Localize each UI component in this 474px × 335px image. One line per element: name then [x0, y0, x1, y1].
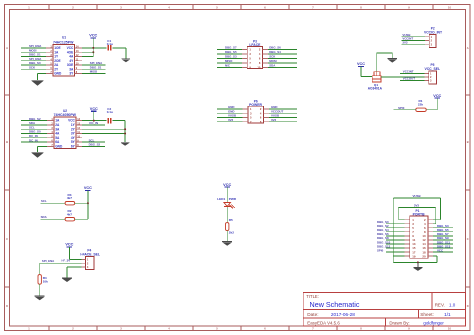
node DBG_S2 (U2) — [29, 117, 41, 121]
power flag VCC (P4) — [65, 243, 73, 247]
wire P3 pin6 — [268, 58, 297, 60]
svg-text:I-FACE_SEL: I-FACE_SEL — [80, 253, 100, 257]
svg-text:VCC: VCC — [433, 94, 441, 98]
node DBG_S4 (P1 left) — [377, 228, 389, 232]
svg-text:3V3: 3V3 — [271, 118, 277, 122]
svg-text:SCK: SCK — [269, 55, 276, 59]
connector P5 VCC_SEL — [424, 63, 440, 84]
wire U2 pin 12 — [82, 128, 125, 130]
svg-text:MOSI: MOSI — [269, 59, 277, 63]
node VCCINT (P2) — [402, 37, 413, 41]
svg-text:SPI0: SPI0 — [398, 106, 405, 110]
ground R4 — [35, 296, 45, 300]
resistor R4 10k — [38, 275, 48, 285]
node DBG_S5 (P3 left) — [225, 50, 237, 54]
svg-text:A: A — [6, 46, 8, 50]
ground U2 rail — [121, 142, 130, 146]
svg-text:AO3401A: AO3401A — [368, 87, 383, 91]
ground P1 — [413, 267, 422, 271]
svg-text:VCC: VCC — [65, 243, 73, 247]
wire U2 pin2 — [21, 124, 47, 126]
connector P1 PORTB — [405, 209, 433, 258]
node VCCOUT (P5) — [403, 77, 415, 81]
svg-text:VCCINT: VCCINT — [403, 70, 414, 74]
node DC_IN (U2) — [29, 134, 38, 138]
svg-text:VCCOUT: VCCOUT — [403, 77, 415, 81]
svg-text:D: D — [467, 304, 469, 308]
node DBG_S2 (U2 right) — [89, 143, 101, 147]
svg-text:New Schematic: New Schematic — [310, 300, 360, 309]
wire U1 pin6 — [21, 68, 46, 70]
title block — [303, 293, 465, 327]
node DBG_S1 (U1 right) — [90, 66, 102, 70]
node SPI_ENA (P4) — [42, 259, 55, 263]
svg-text:VCC: VCC — [437, 248, 444, 252]
svg-text:22k: 22k — [418, 103, 423, 107]
wire SPI0 to R1 — [394, 109, 416, 111]
wire P1 pin3 — [386, 223, 405, 225]
wire VCC pullup rail — [87, 190, 89, 219]
wire P3 pin4 — [268, 53, 297, 55]
svg-text:19: 19 — [412, 254, 416, 258]
svg-text:74HC125PW: 74HC125PW — [53, 40, 74, 44]
wire P6 pin2 — [269, 108, 297, 110]
wire U1 pin5 — [21, 64, 46, 66]
wire U2 GND — [38, 146, 48, 152]
wire U1 pin9 — [82, 68, 106, 70]
wire U2 pin3 — [21, 128, 47, 130]
svg-text:DBG_S7: DBG_S7 — [225, 46, 237, 50]
wire P6 pin8 — [269, 121, 297, 123]
wire P1 pin13 — [386, 243, 405, 245]
junction dots U2 ground rail — [124, 128, 126, 134]
wire P5 pin1 — [400, 72, 424, 74]
ground LED chain — [222, 242, 232, 246]
capacitor C1 0.1u — [107, 39, 113, 51]
svg-text:DBG_S3: DBG_S3 — [225, 55, 237, 59]
wire U2 pin 13 — [82, 124, 105, 126]
power flag VCC (LED1) — [223, 183, 231, 187]
svg-text:1.0: 1.0 — [449, 302, 456, 307]
svg-text:3V3: 3V3 — [402, 40, 408, 44]
node DBG_S0 (U2) — [29, 130, 41, 134]
node SDA (P3 right) — [269, 64, 276, 68]
wire VCC to LED1 — [226, 187, 228, 202]
svg-text:10: 10 — [257, 66, 260, 70]
junction dot P1 ground — [417, 261, 419, 263]
svg-text:SCK: SCK — [29, 66, 36, 70]
svg-text:POWER: POWER — [249, 103, 262, 107]
svg-text:DBG_S5: DBG_S5 — [225, 50, 237, 54]
wire P3 pin2 — [268, 49, 297, 51]
ground P4 — [62, 278, 72, 282]
svg-text:VCCIO_INT: VCCIO_INT — [424, 31, 443, 35]
svg-text:20: 20 — [422, 254, 426, 258]
wire U2 pin 9 — [82, 141, 105, 143]
svg-text:2k2: 2k2 — [229, 230, 234, 234]
capacitor C2 0.1u — [107, 107, 113, 123]
wire P2 pin3 — [401, 43, 425, 45]
wire P1 pin9 — [386, 235, 405, 237]
svg-text:Drawn By:: Drawn By: — [389, 321, 409, 326]
node SDA (R2) — [41, 215, 48, 219]
wire VUSB loop — [393, 198, 440, 263]
node VUSB (P1) — [413, 194, 421, 198]
wire P1 pin11 — [386, 239, 405, 241]
node DBG_S3 (P3 left) — [225, 55, 237, 59]
node VCCINT (P5) — [403, 70, 414, 74]
resistor R1 22k — [416, 99, 426, 111]
node VUSB (P2) — [402, 33, 410, 37]
IC U2 74HC4050PW — [47, 109, 82, 149]
wire P1 pin5 — [386, 227, 405, 229]
node VUSB (P6 left) — [228, 114, 236, 118]
node SCL (R3) — [41, 199, 47, 203]
wire P5 pin3 — [400, 79, 424, 81]
svg-text:DC_IN: DC_IN — [89, 121, 98, 125]
node 3V3 (P6 right) — [271, 118, 277, 122]
node GND (P6 right) — [271, 105, 277, 109]
node DBG_S4 (P3 right) — [269, 50, 281, 54]
wire Q1 gate to ground — [377, 53, 393, 72]
IC U1 74HC125PW — [46, 36, 82, 76]
node DBG_S0 (P1 left) — [377, 220, 389, 224]
wire U1 pin 13 — [82, 51, 94, 53]
wire U1 pin10 — [82, 64, 106, 66]
svg-text:MISO: MISO — [225, 59, 233, 63]
node GND (P6 left) — [228, 109, 234, 113]
wire P1 pin17 — [386, 251, 405, 253]
wire P2 pin1 — [401, 36, 425, 38]
wire U1 pin2 — [21, 51, 46, 53]
wire P1 pin16 — [433, 247, 453, 249]
wire U1 pin4 — [21, 60, 46, 62]
svg-text:SCL: SCL — [41, 199, 47, 203]
wire P1 ground loop — [393, 256, 437, 262]
node SPI_ENA (U1 right) — [90, 61, 103, 65]
node MISO (P3 left) — [225, 59, 233, 63]
ground U1 — [32, 80, 44, 86]
wire C2 to ground rail — [113, 121, 126, 143]
node SPI0 (P1 left) — [377, 248, 384, 252]
node GND (P6 left) — [228, 105, 234, 109]
svg-text:4k7: 4k7 — [67, 196, 72, 200]
node VUSB (P6 right) — [271, 114, 279, 118]
svg-text:VCC: VCC — [89, 34, 97, 38]
wire P2 pin2 — [401, 40, 425, 42]
svg-text:A: A — [467, 46, 469, 50]
node DBG_S10 (P1 left) — [377, 240, 391, 244]
power flag VCC (pullups) — [84, 186, 92, 190]
node DBG_S6 (P1 left) — [377, 232, 389, 236]
node DBG_S0 — [29, 61, 41, 65]
wire P1 pin12 — [433, 239, 453, 241]
wire to P1 ground flag — [417, 262, 419, 267]
svg-text:Sheet:: Sheet: — [420, 312, 434, 317]
wire U1 pin 12 — [82, 55, 94, 57]
wire P6 pin6 — [269, 117, 297, 119]
wire P1 pin14 — [433, 243, 453, 245]
wire P3 pin10 — [268, 67, 297, 69]
node I-F_3V3 — [62, 259, 71, 263]
svg-text:R5: R5 — [229, 218, 233, 222]
svg-text:74HC4050PW: 74HC4050PW — [54, 113, 77, 117]
wire 3V3 loop — [398, 208, 435, 224]
node DC_IN (U2) — [29, 138, 38, 142]
node SCK — [29, 66, 36, 70]
svg-text:3V3: 3V3 — [414, 203, 420, 207]
wire U2 pin5 — [21, 137, 47, 139]
wire SCL to R3 — [40, 202, 65, 204]
svg-text:4k7: 4k7 — [67, 213, 72, 217]
wire P3 pin1 — [217, 49, 242, 51]
power flag VCC (U2) — [90, 107, 98, 111]
node SDA (U2) — [29, 121, 36, 125]
ground Q1 gate — [388, 59, 397, 63]
wire R2 to rail — [75, 218, 88, 220]
wire VCC to U2 pin 14 — [93, 111, 95, 120]
svg-text:SDA: SDA — [269, 64, 276, 68]
wire U1 pin8 — [82, 73, 106, 75]
node DBG_S7 (P1 right) — [437, 232, 449, 236]
wire VCC to U1 pin 14 — [92, 38, 94, 57]
node DBG_S2 (P1 left) — [377, 224, 389, 228]
svg-text:SPI0: SPI0 — [377, 248, 384, 252]
wire U1 pin3 — [21, 55, 46, 57]
node DBG_S12 (P1 left) — [377, 244, 391, 248]
node SCL (U2) — [29, 125, 35, 129]
svg-text:SDA: SDA — [41, 215, 48, 219]
svg-text:DC_IN: DC_IN — [29, 138, 38, 142]
wire C1 to ground — [113, 48, 126, 59]
svg-text:10k: 10k — [43, 279, 48, 283]
resistor R2 4k7 — [65, 209, 75, 221]
svg-text:MISO: MISO — [90, 70, 98, 74]
wire R5 to ground — [226, 231, 228, 242]
node MOSI (P3 right) — [269, 59, 277, 63]
node DBG_S3 (P1 right) — [437, 224, 449, 228]
node 3V3 (P6 left) — [228, 118, 234, 122]
svg-text:GND: GND — [54, 72, 62, 76]
node DBG_S13 (P1 right) — [437, 244, 451, 248]
svg-text:LED1: LED1 — [217, 197, 225, 201]
power flag VCC (Q1) — [357, 62, 365, 66]
node MISO (U1 right) — [90, 70, 98, 74]
wire P3 pin5 — [217, 58, 242, 60]
node DBG_S6 (P3 right) — [269, 46, 281, 50]
connector P3 I-FACE — [242, 39, 268, 69]
svg-text:0.1u: 0.1u — [107, 110, 113, 114]
wire P6 pin7 — [217, 121, 243, 123]
wire P3 pin3 — [217, 53, 242, 55]
svg-text:SPI_ENA: SPI_ENA — [42, 259, 55, 263]
node SCL (U2 right) — [89, 138, 95, 142]
node DBG_S11 (P1 right) — [437, 240, 450, 244]
svg-text:I-F_3V: I-F_3V — [62, 259, 71, 263]
svg-text:C: C — [6, 237, 8, 241]
resistor R3 4k7 — [65, 193, 75, 205]
power flag VCC (U1) — [89, 34, 97, 38]
wire P3 pin7 — [217, 62, 242, 64]
wire VCC to P4 pin1 — [69, 247, 85, 260]
junction dot pullup rail — [87, 202, 89, 204]
svg-text:I-FACE: I-FACE — [249, 43, 261, 47]
svg-text:TITLE:: TITLE: — [306, 294, 319, 299]
node DBG_S7 (P3 left) — [225, 46, 237, 50]
wire U1 VCC row — [82, 47, 107, 49]
svg-text:VCC: VCC — [90, 107, 98, 111]
wire VCC to Q1 source — [361, 66, 372, 76]
connector P6 POWER — [243, 100, 269, 124]
LED LED1 PWR — [217, 197, 236, 208]
wire U2 pin 8 — [82, 145, 105, 147]
wire P4 pin3 to ground — [67, 267, 81, 278]
wire U2 pin1 — [21, 120, 47, 122]
node 3V3 (P2) — [402, 40, 408, 44]
junction dot U2 VCC — [93, 120, 95, 122]
svg-text:Date:: Date: — [307, 312, 318, 317]
wire R3 to rail — [75, 202, 88, 204]
svg-text:REV.: REV. — [435, 302, 445, 307]
svg-text:DBG_S2: DBG_S2 — [89, 143, 101, 147]
connector P2 VCCIO_INT — [424, 27, 443, 48]
wire P6 pin3 — [217, 112, 243, 114]
svg-text:U1: U1 — [62, 36, 66, 40]
wire P6 pin4 — [269, 112, 297, 114]
wire U2 pin4 — [21, 133, 47, 135]
wire SDA to R2 — [40, 218, 65, 220]
wire U2 pin6 — [21, 141, 47, 143]
wire Q1 drain to P5 pin2 — [381, 76, 429, 78]
svg-text:GND: GND — [55, 145, 63, 149]
wire P1 pin15 — [386, 247, 405, 249]
node DBG_S5 (P1 right) — [437, 228, 449, 232]
wire U2 VCC row — [82, 120, 107, 122]
svg-text:B: B — [6, 140, 8, 144]
wire SPI_ENA to P4 pin2 — [40, 263, 82, 274]
node VCC (P1 right) — [437, 248, 444, 252]
node N/C (P3 left) — [225, 64, 231, 68]
svg-text:goldfynger: goldfynger — [423, 321, 444, 326]
wire R4 to ground — [39, 284, 41, 296]
svg-text:PWR: PWR — [229, 197, 237, 201]
transistor Q1 AO3401A — [368, 72, 383, 91]
svg-text:VCC: VCC — [84, 186, 92, 190]
connector P4 I-FACE_SEL — [80, 248, 100, 269]
wire U1 pin1 — [21, 47, 46, 49]
svg-text:VCC: VCC — [357, 62, 365, 66]
svg-text:3V3: 3V3 — [228, 118, 234, 122]
ground C1 — [122, 59, 131, 63]
wire P6 pin1 — [217, 108, 243, 110]
node SPI0 — [398, 106, 405, 110]
svg-text:VCC_SEL: VCC_SEL — [424, 67, 440, 71]
wire P1 pin7 — [386, 231, 405, 233]
svg-text:DBG_S6: DBG_S6 — [269, 46, 281, 50]
svg-text:2017-06-28: 2017-06-28 — [331, 312, 355, 317]
node DBG_S9 (P1 right) — [437, 236, 449, 240]
wire P1 pin6 — [433, 227, 453, 229]
wire P3 pin8 — [268, 62, 297, 64]
svg-text:EasyEDA V4.5.6: EasyEDA V4.5.6 — [307, 321, 340, 326]
node SPI_ENA — [29, 57, 42, 61]
node SPI_ENA — [29, 44, 42, 48]
wire P1 pin8 — [433, 231, 453, 233]
svg-text:DBG_S4: DBG_S4 — [269, 50, 281, 54]
ground U2 — [32, 152, 44, 158]
svg-text:D: D — [6, 304, 8, 308]
wire P1 pin18 — [433, 251, 453, 253]
wire P1 pin10 — [433, 235, 453, 237]
node 3V3 (P1) — [414, 203, 420, 207]
node MOSI — [29, 48, 37, 52]
junction dots VCC rail — [92, 47, 94, 53]
wire U2 pin 11 — [82, 133, 125, 135]
wire U1 GND — [38, 74, 47, 81]
svg-text:C: C — [467, 237, 469, 241]
node VCCOUT (P6 right) — [271, 109, 283, 113]
wire R1 to VCC — [426, 98, 437, 110]
wire LED1 to R5 — [226, 207, 228, 223]
node DC_IN (U2 right) — [89, 121, 98, 125]
node DBG_S1 — [29, 53, 41, 57]
resistor R5 2k2 — [226, 218, 235, 234]
node SCK (P3 right) — [269, 55, 276, 59]
svg-text:0.1u: 0.1u — [107, 42, 113, 46]
svg-text:1/1: 1/1 — [444, 312, 451, 317]
svg-text:PORTB: PORTB — [413, 213, 425, 217]
wire P6 pin5 — [217, 117, 243, 119]
power flag VCC (R1) — [433, 94, 441, 98]
svg-text:B: B — [467, 140, 469, 144]
node DBG_S8 (P1 left) — [377, 236, 389, 240]
svg-text:VCC: VCC — [223, 183, 231, 187]
wire P3 pin9 — [217, 67, 242, 69]
